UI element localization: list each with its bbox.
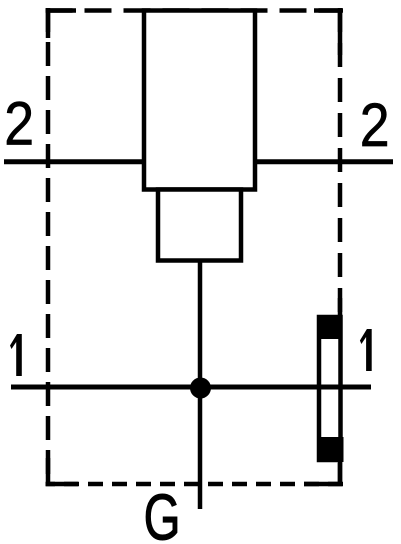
label 1 (left port): [10, 334, 22, 376]
enclosure bottom edge (dashed boundary): [46, 482, 344, 487]
plug component body (right side): [319, 317, 341, 460]
enclosure top edge (dashed boundary): [46, 8, 344, 13]
valve body lower section: [158, 190, 241, 261]
wire: right border stub above plug: [338, 298, 343, 318]
wire: valve outlet down to G: [198, 259, 203, 509]
junction node on line 1: [190, 378, 211, 399]
enclosure corner bottom-left: [48, 458, 78, 484]
enclosure corner bottom-right: [304, 458, 340, 484]
plug bottom seal (filled): [318, 437, 344, 462]
enclosure corner top-right: [314, 11, 340, 56]
enclosure right edge (dashed boundary): [338, 8, 343, 486]
label 1 (right port): [360, 329, 372, 371]
svg-text:G: G: [144, 481, 181, 544]
valve body upper section: [144, 11, 255, 190]
port line 2 left segment: [4, 159, 146, 164]
port line 2 right segment: [253, 159, 393, 164]
plug top seal (filled): [317, 315, 343, 339]
port line 1: [11, 385, 371, 390]
enclosure corner top-left: [48, 11, 76, 39]
svg-text:2: 2: [360, 92, 390, 160]
enclosure left edge (dashed boundary): [46, 8, 51, 486]
svg-text:2: 2: [4, 90, 34, 158]
